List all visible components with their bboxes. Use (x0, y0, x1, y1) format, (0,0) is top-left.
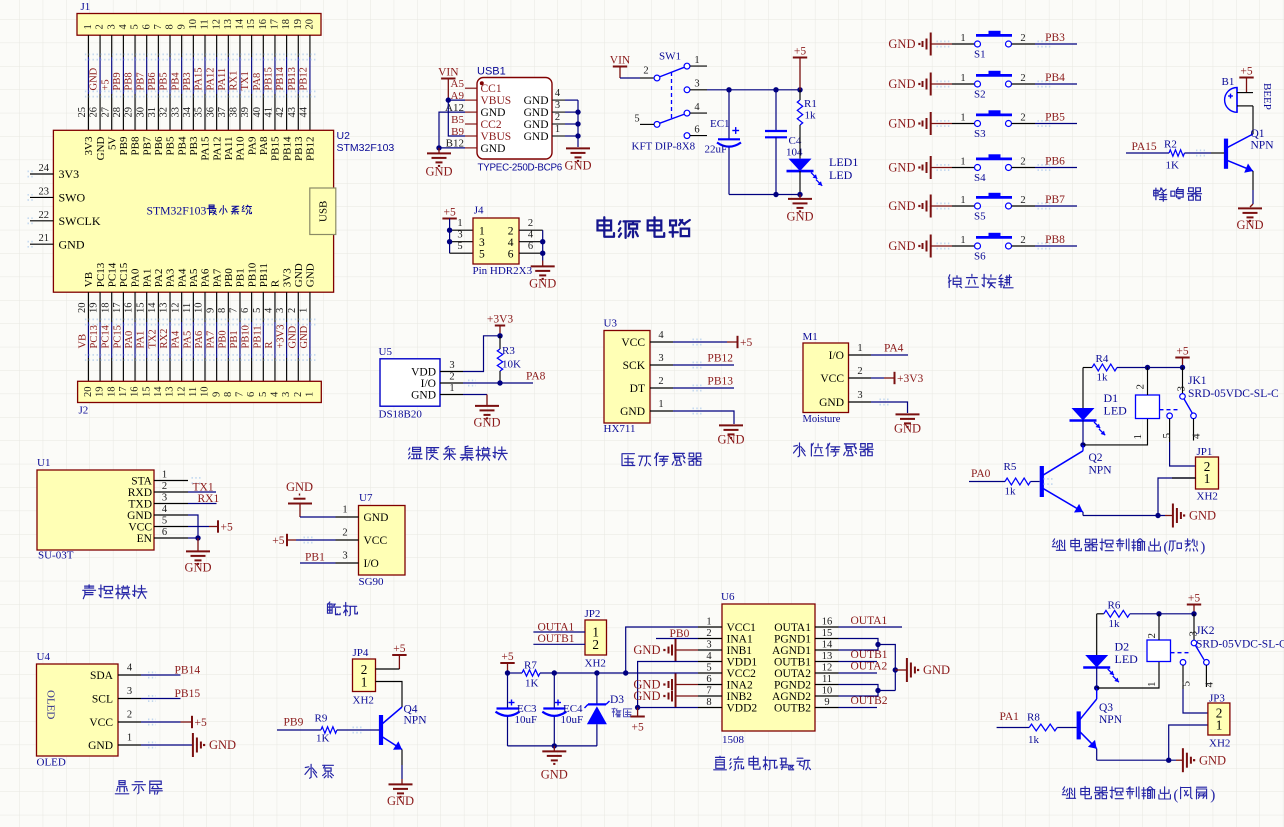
capacitor EC1 22uF (728, 90, 730, 140)
svg-text:TX2: TX2 (147, 329, 158, 348)
svg-text:D3: D3 (610, 694, 624, 706)
wire Q2 emitter to bottom rail (1082, 512, 1084, 516)
U6 left pins 1-8 (698, 626, 722, 628)
svg-text:2: 2 (658, 376, 663, 387)
svg-text:8: 8 (223, 392, 234, 397)
junction gnd bus tap (893, 667, 898, 672)
caption 舵机 (328, 602, 341, 615)
svg-text:16: 16 (130, 387, 141, 398)
svg-text:4: 4 (528, 230, 534, 241)
svg-text:GND: GND (633, 689, 660, 703)
svg-text:INB1: INB1 (727, 645, 753, 657)
S4 pin 2 (1012, 167, 1036, 169)
ground GND (JK1) (1165, 515, 1172, 517)
S2 pin 2 (1012, 83, 1036, 85)
wire U6 OUTA2 out (839, 672, 878, 674)
relay JK1 coil (1136, 395, 1160, 419)
svg-text:20: 20 (77, 303, 88, 314)
wire pin5 to JP1 pin2 (1170, 442, 1196, 466)
svg-text:PB6: PB6 (153, 136, 165, 155)
S1 pin 2 (1012, 43, 1036, 45)
junction pgnd2 (875, 688, 880, 693)
svg-text:KFT DIP-8X8: KFT DIP-8X8 (632, 141, 696, 153)
pushbutton S1 (975, 41, 981, 47)
LED D2 (1085, 655, 1108, 668)
relay JK2 contact pin3 (1193, 614, 1195, 640)
svg-text:PA9: PA9 (246, 136, 258, 155)
svg-text:GND: GND (59, 237, 85, 251)
svg-text:+5: +5 (100, 79, 111, 90)
svg-text:14: 14 (153, 386, 164, 397)
wire U4 VCC to +5 (141, 721, 181, 723)
svg-text:PB10: PB10 (241, 325, 252, 348)
svg-text:EN: EN (137, 533, 153, 545)
svg-text:NPN: NPN (1089, 465, 1113, 477)
svg-text:A5: A5 (451, 78, 465, 90)
power port +3V3 (M1) (894, 372, 896, 384)
svg-text:2: 2 (287, 308, 298, 313)
svg-text:PGND2: PGND2 (774, 680, 811, 692)
svg-text:29: 29 (124, 107, 135, 118)
svg-text:2: 2 (706, 628, 711, 639)
svg-text:GND: GND (1199, 753, 1226, 767)
svg-text:9: 9 (211, 392, 222, 397)
svg-text:GND: GND (786, 210, 813, 224)
svg-text:8: 8 (706, 697, 711, 708)
svg-text:PA4: PA4 (884, 343, 904, 355)
svg-text:GND: GND (184, 561, 211, 575)
svg-text:(: ( (1173, 788, 1178, 804)
svg-text:1: 1 (162, 470, 167, 481)
wire VIN to VBUS pins (448, 99, 465, 101)
svg-text:PC15: PC15 (112, 325, 123, 348)
svg-text:SWO: SWO (59, 191, 86, 205)
svg-text:STM32F103: STM32F103 (147, 206, 207, 218)
svg-text:PB4: PB4 (176, 136, 188, 155)
svg-text:VCC2: VCC2 (727, 668, 757, 680)
svg-text:32: 32 (159, 107, 170, 118)
wire U4 GND to ground (141, 744, 192, 746)
svg-text:SU-03T: SU-03T (38, 550, 74, 562)
svg-text:PGND1: PGND1 (774, 634, 811, 646)
svg-text:PB14: PB14 (175, 664, 201, 676)
svg-text:GND: GND (88, 740, 113, 752)
junctions USB1 right bus (575, 109, 580, 114)
svg-text:4: 4 (264, 307, 275, 313)
svg-text:PA8: PA8 (526, 371, 546, 383)
wire coil pin1 to node (1083, 419, 1148, 445)
svg-text:GND: GND (894, 422, 921, 436)
J4 right pins to ground (519, 229, 543, 231)
svg-text:OUTA2: OUTA2 (774, 668, 811, 680)
svg-text:+5: +5 (393, 643, 405, 655)
svg-text:R9: R9 (315, 713, 328, 725)
wire R6 left to LED D2 (1096, 614, 1098, 655)
wire rail to U6 VCC pins (540, 672, 698, 674)
svg-text:15: 15 (246, 19, 257, 30)
svg-text:30: 30 (135, 107, 146, 118)
wire U1 GND and EN to ground (188, 515, 198, 538)
relay JK2 coil (1147, 640, 1171, 662)
svg-text:4: 4 (127, 663, 133, 674)
svg-text:3V3: 3V3 (281, 268, 293, 287)
svg-text:34: 34 (182, 106, 193, 117)
title 电源电路 (598, 217, 615, 237)
resistor R8 1k (1029, 724, 1057, 731)
svg-text:3: 3 (127, 686, 132, 697)
U1 pins 1-6 (154, 480, 188, 482)
svg-text:PC14: PC14 (101, 324, 112, 348)
svg-text:GND: GND (387, 794, 414, 808)
svg-text:PB15: PB15 (264, 67, 275, 90)
svg-text:OLED: OLED (37, 757, 66, 769)
wires U2 to J2 (20 columns) (87, 292, 89, 322)
svg-text:2: 2 (1146, 633, 1158, 639)
svg-text:27: 27 (100, 107, 111, 118)
svg-text:17: 17 (270, 19, 281, 30)
svg-text:RXD: RXD (128, 487, 152, 499)
svg-text:3V3: 3V3 (83, 136, 95, 155)
svg-text:USB: USB (318, 201, 330, 222)
svg-text:+5: +5 (794, 45, 806, 57)
svg-text:R4: R4 (1096, 353, 1109, 365)
svg-text:LED1: LED1 (829, 155, 858, 169)
svg-text:3: 3 (281, 392, 292, 397)
svg-text:GND: GND (923, 663, 950, 677)
wire U5 GND to ground (463, 394, 487, 396)
svg-text:PB0: PB0 (217, 330, 228, 348)
svg-text:2: 2 (162, 481, 167, 492)
ground GND (buzzer) (1250, 204, 1253, 207)
svg-text:2: 2 (643, 66, 648, 77)
svg-text:1k: 1k (805, 110, 817, 122)
relay JK1 contact pin5 (1167, 413, 1173, 419)
wire gnd to U6 INB1 (676, 649, 699, 651)
svg-text:1: 1 (857, 343, 862, 354)
svg-text:Q2: Q2 (1089, 452, 1103, 464)
svg-text:PA2: PA2 (153, 269, 165, 288)
svg-text:11: 11 (182, 303, 193, 313)
svg-text:Q1: Q1 (1251, 128, 1265, 140)
svg-text:OUTB1: OUTB1 (538, 633, 575, 645)
wire R6 to +5 (JK2) (1130, 613, 1194, 615)
transistor Q1 NPN (1224, 139, 1228, 169)
svg-text:2: 2 (1020, 195, 1025, 206)
svg-text:PA3: PA3 (165, 268, 177, 287)
svg-text:GND: GND (411, 389, 436, 401)
wire R5 to Q2 base (1031, 481, 1040, 483)
svg-text:1k: 1k (1028, 734, 1040, 746)
USB1 left pins A5 A9 A12 B5 B9 B12 (465, 87, 477, 89)
svg-text:PB9: PB9 (112, 72, 123, 90)
wire OUTB1 to JP2 pin2 (533, 643, 585, 645)
SW1 pin 3 (690, 89, 707, 91)
svg-text:PA12: PA12 (205, 68, 216, 91)
svg-text:R1: R1 (804, 98, 817, 110)
LED D1 (1072, 408, 1095, 421)
svg-text:): ) (1200, 540, 1205, 556)
svg-text:PB12: PB12 (707, 353, 733, 365)
svg-text:36: 36 (205, 107, 216, 118)
svg-text:S2: S2 (974, 89, 986, 101)
svg-text:S4: S4 (974, 172, 986, 184)
resistor R7 1K (508, 672, 523, 674)
svg-text:4: 4 (658, 330, 664, 341)
svg-text:VIN: VIN (438, 66, 459, 78)
svg-text:I/O: I/O (421, 378, 436, 390)
resistor R4 1k (1083, 367, 1092, 369)
svg-text:VIN: VIN (610, 54, 631, 66)
svg-text:PB1: PB1 (235, 268, 247, 287)
svg-text:1: 1 (1216, 718, 1223, 733)
caption 蜂鸣器 (1154, 188, 1167, 201)
svg-text:HX711: HX711 (604, 423, 636, 435)
svg-text:Q3: Q3 (1099, 702, 1113, 714)
svg-text:PB3: PB3 (1045, 32, 1065, 44)
svg-text:3: 3 (479, 237, 485, 249)
svg-text:3: 3 (706, 640, 711, 651)
junction VIN-VBUS (446, 97, 451, 102)
svg-text:NPN: NPN (1099, 714, 1123, 726)
svg-text:6: 6 (508, 249, 514, 261)
svg-text:INA2: INA2 (727, 680, 753, 692)
wire S2 to net PB4 (1035, 83, 1077, 85)
LED LED1 (789, 159, 812, 172)
wire JP3 pin1 down (1169, 725, 1208, 760)
svg-text:GND: GND (305, 263, 317, 287)
SW1 pin 1 (690, 65, 707, 67)
svg-text:VCC: VCC (128, 521, 152, 533)
junction J4 pin3 (447, 239, 452, 244)
svg-text:XH2: XH2 (1197, 491, 1218, 503)
JP1 pin stubs (1172, 477, 1196, 479)
svg-text:JP4: JP4 (353, 647, 369, 659)
svg-text:40: 40 (252, 107, 263, 118)
svg-text:3: 3 (658, 353, 663, 364)
wire JP4 pin1 to Q4 collector (376, 682, 403, 708)
SW1 pin 6 (690, 135, 707, 137)
wire R4 to +5 rail (1117, 367, 1183, 369)
ground GND (motor caps) (553, 746, 555, 751)
svg-text:7: 7 (235, 392, 246, 397)
svg-text:+5: +5 (221, 522, 233, 534)
svg-text:PC13: PC13 (95, 262, 107, 287)
wire PA15 to R2 (1126, 152, 1169, 154)
svg-text:1K: 1K (316, 733, 330, 745)
svg-text:5: 5 (1181, 681, 1193, 687)
svg-text:TYPEC-250D-BCP6: TYPEC-250D-BCP6 (478, 163, 563, 174)
wire PA1 to R8 (997, 727, 1030, 729)
relay JK2 contact pin5 (1180, 660, 1186, 666)
svg-text:GND: GND (888, 199, 915, 213)
wire U5 I/O to PA8 (463, 382, 533, 384)
wire pin5 to JP3 pin2 (1183, 689, 1208, 713)
svg-text:GND: GND (287, 325, 298, 348)
svg-text:U4: U4 (37, 651, 51, 663)
svg-text:PA4: PA4 (176, 268, 188, 287)
svg-text:NPN: NPN (1251, 140, 1275, 152)
svg-text:VCC: VCC (820, 373, 844, 385)
svg-text:R8: R8 (1027, 712, 1040, 724)
svg-text:21: 21 (39, 233, 50, 244)
svg-text:3: 3 (1176, 386, 1188, 392)
svg-text:U7: U7 (359, 492, 373, 504)
svg-text:1: 1 (960, 156, 965, 167)
ground GND (U4) (192, 733, 194, 757)
svg-text:JK1: JK1 (1188, 375, 1207, 387)
buzzer pins (1237, 92, 1253, 94)
wire U6 PGND1/AGND1 to gnd bus (839, 639, 879, 645)
svg-text:44: 44 (299, 106, 310, 117)
svg-text:7: 7 (706, 686, 711, 697)
caption 直流电机驱动 (714, 756, 727, 770)
junction USB1 gnd (436, 145, 441, 150)
junction +5 JK2 (1191, 611, 1196, 616)
resistor R1 1k (799, 90, 801, 100)
svg-text:I/O: I/O (364, 558, 379, 570)
svg-text:PA7: PA7 (211, 268, 223, 287)
svg-text:4: 4 (118, 24, 129, 30)
svg-text:VDD1: VDD1 (727, 657, 758, 669)
svg-text:GND: GND (286, 480, 313, 494)
caption 压力传感器 (622, 454, 635, 466)
SW1 pin 5 (640, 123, 654, 125)
svg-text:PA0: PA0 (124, 331, 135, 349)
svg-text:1k: 1k (1097, 372, 1109, 384)
svg-text:PB13: PB13 (707, 376, 733, 388)
svg-text:43: 43 (287, 107, 298, 118)
svg-text:4: 4 (706, 651, 712, 662)
svg-text:B5: B5 (451, 114, 464, 126)
svg-text:17: 17 (112, 303, 123, 314)
svg-text:PA0: PA0 (971, 468, 991, 480)
wire S6 to net PB8 (1035, 245, 1077, 247)
svg-text:GND: GND (299, 325, 310, 348)
svg-text:AGND1: AGND1 (772, 645, 811, 657)
relay JK1 contact pin3 (1182, 368, 1184, 394)
svg-text:U2: U2 (337, 130, 351, 142)
svg-text:TX1: TX1 (193, 482, 214, 494)
svg-text:10K: 10K (502, 359, 521, 371)
svg-text:STM32F103: STM32F103 (337, 142, 395, 154)
wire USB1 right GND bus (565, 99, 578, 101)
svg-text:1K: 1K (525, 678, 539, 690)
svg-text:1K: 1K (1166, 160, 1180, 172)
svg-text:15: 15 (135, 303, 146, 314)
MCU module U2 STM32F103 (53, 130, 333, 292)
svg-text:10: 10 (822, 686, 833, 697)
svg-text:Pin HDR2X3: Pin HDR2X3 (473, 265, 533, 277)
svg-text:3: 3 (555, 100, 560, 111)
caption 水泵 (305, 764, 317, 778)
ground GND (pump) (401, 779, 403, 784)
wire bottom rail (motor) (508, 745, 598, 747)
svg-text:4: 4 (694, 102, 700, 113)
svg-text:PB11: PB11 (258, 263, 270, 287)
svg-text:18: 18 (281, 19, 292, 30)
svg-text:OUTB1: OUTB1 (774, 657, 811, 669)
svg-text:1: 1 (1132, 434, 1144, 440)
caption 继电器控制输出(风扇) (1062, 787, 1075, 799)
svg-text:VCC: VCC (621, 337, 645, 349)
svg-text:GND: GND (95, 136, 107, 160)
svg-text:SWCLK: SWCLK (59, 214, 101, 228)
wire GND to S3 pin1 (931, 123, 952, 125)
wire +5 to U7 VCC (287, 539, 296, 541)
svg-text:4: 4 (162, 504, 168, 515)
svg-text:TX1: TX1 (240, 71, 251, 90)
svg-text:1k: 1k (1005, 486, 1017, 498)
svg-text:OUTB2: OUTB2 (774, 703, 811, 715)
svg-text:JP2: JP2 (585, 608, 601, 620)
svg-text:LED: LED (1104, 404, 1128, 418)
svg-text:DS18B20: DS18B20 (379, 409, 423, 421)
svg-text:VDD: VDD (411, 366, 436, 378)
svg-text:PA15: PA15 (1132, 141, 1157, 153)
svg-text:1: 1 (127, 733, 132, 744)
pushbutton S3 (975, 121, 981, 127)
svg-text:AGND2: AGND2 (772, 691, 811, 703)
svg-text:INA1: INA1 (727, 634, 753, 646)
relay JK1 switch arm (1184, 399, 1192, 413)
wire gnd to U7 pin1 (300, 516, 336, 518)
wire U3 DT to PB13 (673, 387, 734, 389)
wire M1 VCC to +3V3 (871, 377, 884, 379)
svg-text:7: 7 (229, 308, 240, 313)
junction J4 pin6 (540, 251, 545, 256)
svg-text:PB13: PB13 (287, 67, 298, 90)
ground GND (JK2) (1176, 759, 1182, 761)
svg-text:10: 10 (194, 303, 205, 314)
svg-text:3: 3 (857, 390, 862, 401)
svg-text:3: 3 (275, 308, 286, 313)
svg-text:PB13: PB13 (293, 136, 305, 161)
svg-text:B1: B1 (1222, 76, 1235, 88)
svg-text:6: 6 (162, 527, 167, 538)
junction VDD +5 (635, 705, 640, 710)
resistor R3 10K (499, 336, 501, 349)
svg-text:GND: GND (524, 107, 549, 119)
svg-text:42: 42 (275, 107, 286, 118)
svg-text:1: 1 (694, 55, 699, 66)
wire GND to S4 pin1 (931, 167, 952, 169)
svg-text:PA5: PA5 (188, 268, 200, 287)
S6 pin 2 (1012, 245, 1036, 247)
svg-text:39: 39 (240, 107, 251, 118)
wire M1 GND to ground (871, 402, 908, 413)
wire U3 VCC to +5 (673, 341, 727, 343)
svg-text:OUTA2: OUTA2 (851, 661, 888, 673)
svg-text:2: 2 (449, 372, 454, 383)
wire PA0 to R5 (969, 481, 1005, 483)
svg-text:XH2: XH2 (353, 695, 374, 707)
power port +5 (U4) (191, 716, 193, 728)
wire +5 to J4 pins 1 3 5 (449, 219, 451, 254)
svg-text:PB8: PB8 (130, 136, 142, 155)
svg-text:GND: GND (89, 67, 100, 90)
svg-text:35: 35 (194, 107, 205, 118)
svg-text:4: 4 (508, 237, 514, 249)
caption 独立按键 (949, 275, 962, 288)
svg-text:R: R (270, 279, 282, 287)
wire elbow to U6 pin1 (626, 627, 698, 673)
wire GND to S1 pin1 (931, 43, 952, 45)
svg-text:PB14: PB14 (281, 136, 293, 161)
svg-text:PB6: PB6 (147, 72, 158, 90)
svg-text:RX1: RX1 (198, 493, 220, 505)
svg-text:1: 1 (960, 195, 965, 206)
svg-text:10: 10 (200, 387, 211, 398)
